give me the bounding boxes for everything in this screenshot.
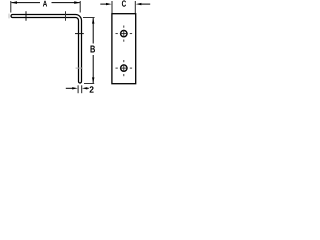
dimension C label bbox=[122, 0, 126, 6]
dimension A label bbox=[43, 1, 47, 7]
hole 1 centerlines bbox=[116, 26, 133, 42]
dimension B extension line bottom bbox=[84, 83, 94, 85]
dimension B arrowhead up bbox=[92, 18, 94, 24]
dimension B line lower segment bbox=[92, 55, 94, 83]
dimension 2 tail line left bbox=[66, 87, 73, 89]
dimension C extension line left bbox=[111, 1, 113, 13]
dimension C tail line right bbox=[141, 3, 150, 5]
dimension 2 extension line left bbox=[77, 85, 79, 93]
hole centerline tick on leg y=33.6 bbox=[75, 33, 84, 35]
dimension 2 extension line right bbox=[81, 85, 83, 93]
dimension A extension line left bbox=[10, 1, 12, 13]
dimension B extension line top bbox=[83, 17, 95, 19]
dimension C extension line right bbox=[134, 1, 136, 13]
dimension A arrowhead right bbox=[74, 1, 80, 4]
dimension A line left segment bbox=[11, 2, 40, 4]
side view plate bbox=[112, 14, 136, 84]
dimension C arrowhead left pointing right bbox=[106, 3, 112, 5]
dimension A arrowhead left bbox=[11, 1, 17, 4]
faint hole centerline tick on leg y=68 bbox=[76, 67, 83, 69]
dimension A line right segment bbox=[52, 2, 80, 4]
hole centerline tick on arm x=26 bbox=[25, 11, 27, 20]
hole centerline tick on arm x=65.5 bbox=[65, 11, 67, 20]
hole 2 circle bbox=[121, 65, 127, 71]
dimension 2 label bbox=[90, 86, 94, 92]
hole 1 circle bbox=[121, 30, 127, 36]
dimension 2 tail line right bbox=[87, 87, 89, 89]
dimension 2 arrowhead right pointing left bbox=[82, 87, 87, 89]
dimension 2 arrowhead left pointing right bbox=[72, 87, 78, 89]
dimension A extension line right bbox=[79, 1, 81, 13]
dimension B line upper segment bbox=[92, 18, 94, 44]
faint hole centerline tick near arm left end bbox=[8, 14, 10, 19]
dimension B arrowhead down bbox=[92, 77, 94, 83]
dimension C tail line left bbox=[100, 3, 106, 5]
dimension C arrowhead right pointing left bbox=[136, 3, 142, 5]
hole 2 centerlines bbox=[116, 60, 133, 76]
dimension B label bbox=[90, 46, 95, 53]
angle bracket profile outline bbox=[11, 15, 82, 84]
